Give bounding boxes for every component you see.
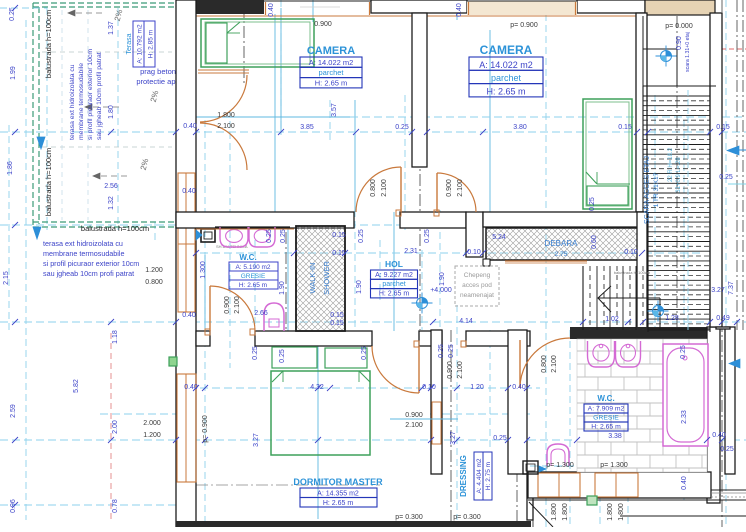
- svg-text:H: 2.75 m: H: 2.75 m: [485, 462, 492, 490]
- svg-text:1.28: 1.28: [665, 315, 679, 322]
- svg-text:1.20: 1.20: [470, 384, 484, 391]
- svg-text:2.31: 2.31: [404, 248, 418, 255]
- svg-text:0.25: 0.25: [448, 344, 455, 358]
- svg-text:si profil picuraor exterior 10: si profil picuraor exterior 10cm: [87, 49, 94, 140]
- svg-text:5.24: 5.24: [492, 234, 506, 241]
- svg-text:1.90: 1.90: [439, 272, 446, 286]
- svg-text:A: 9.227 m2: A: 9.227 m2: [375, 272, 413, 279]
- svg-text:0.25: 0.25: [358, 229, 365, 243]
- svg-text:1.90: 1.90: [356, 280, 363, 294]
- svg-text:H: 2.65 m: H: 2.65 m: [239, 282, 267, 289]
- svg-text:2.100: 2.100: [457, 361, 464, 379]
- svg-text:neamenajat: neamenajat: [460, 292, 494, 299]
- svg-text:0.40: 0.40: [681, 476, 688, 490]
- svg-text:2.100: 2.100: [405, 422, 423, 429]
- svg-text:0.25: 0.25: [9, 7, 16, 21]
- svg-text:1 TR 31X17: 1 TR 31X17: [653, 172, 660, 207]
- svg-text:balustrada h=100cm: balustrada h=100cm: [44, 148, 53, 216]
- svg-text:A: 7.909 m2: A: 7.909 m2: [588, 406, 625, 413]
- svg-text:0.900: 0.900: [314, 21, 332, 28]
- svg-text:1.300: 1.300: [200, 261, 207, 279]
- svg-text:sau jgheab 10cm profil patrat: sau jgheab 10cm profil patrat: [96, 52, 103, 140]
- svg-text:3.38: 3.38: [608, 433, 622, 440]
- svg-text:membrane termosudabile: membrane termosudabile: [78, 63, 85, 140]
- svg-text:1.32: 1.32: [108, 196, 115, 210]
- svg-text:GRESIE: GRESIE: [241, 273, 266, 280]
- svg-text:4.32: 4.32: [310, 384, 324, 391]
- svg-text:0.15: 0.15: [618, 124, 632, 131]
- svg-text:p= 0.900: p= 0.900: [202, 415, 209, 443]
- svg-text:0.60: 0.60: [591, 235, 598, 249]
- svg-text:acces pod: acces pod: [462, 282, 492, 289]
- svg-text:0.15: 0.15: [330, 320, 344, 327]
- svg-text:2.00: 2.00: [112, 420, 119, 434]
- svg-text:0.40: 0.40: [512, 384, 526, 391]
- svg-text:0.40: 0.40: [183, 123, 197, 130]
- svg-text:0.800: 0.800: [145, 279, 163, 286]
- svg-text:0.900: 0.900: [446, 179, 453, 197]
- svg-text:2.56: 2.56: [104, 183, 118, 190]
- svg-text:2.100: 2.100: [457, 179, 464, 197]
- svg-text:p= 1.300: p= 1.300: [600, 462, 628, 469]
- svg-text:0.25: 0.25: [361, 346, 368, 360]
- svg-text:0.40: 0.40: [184, 384, 198, 391]
- svg-text:7.37: 7.37: [728, 281, 735, 295]
- svg-text:1.90: 1.90: [279, 281, 286, 295]
- svg-text:0.800: 0.800: [541, 355, 548, 373]
- svg-text:2.000: 2.000: [143, 420, 161, 427]
- svg-text:0.900: 0.900: [405, 412, 423, 419]
- svg-text:DORMITOR MASTER: DORMITOR MASTER: [293, 477, 383, 487]
- svg-text:2.59: 2.59: [10, 404, 17, 418]
- svg-text:WALK-IN: WALK-IN: [308, 263, 317, 294]
- svg-text:0.15: 0.15: [716, 124, 730, 131]
- svg-text:p= 0.300: p= 0.300: [395, 514, 423, 521]
- svg-text:p= 0.000: p= 0.000: [665, 23, 693, 30]
- svg-text:0.78: 0.78: [112, 499, 119, 513]
- svg-text:2.100: 2.100: [234, 296, 241, 314]
- svg-text:0.15: 0.15: [332, 250, 346, 257]
- svg-text:2.100: 2.100: [551, 355, 558, 373]
- svg-text:0.25: 0.25: [680, 345, 687, 359]
- svg-text:0.25: 0.25: [720, 446, 734, 453]
- svg-text:1.200: 1.200: [145, 267, 163, 274]
- svg-text:0.25: 0.25: [493, 435, 507, 442]
- svg-text:2.75: 2.75: [555, 251, 568, 258]
- svg-text:protectie ape: protectie ape: [136, 77, 179, 86]
- svg-text:2.15: 2.15: [3, 271, 10, 285]
- svg-text:A: 14.355 m2: A: 14.355 m2: [317, 491, 359, 498]
- svg-text:scara 1.31+0 etaj: scara 1.31+0 etaj: [685, 32, 691, 72]
- svg-text:A: 14.022 m2: A: 14.022 m2: [479, 60, 533, 70]
- svg-text:A: 14.022 m2: A: 14.022 m2: [309, 58, 354, 67]
- svg-text:balustrada h=100cm: balustrada h=100cm: [614, 270, 651, 275]
- svg-text:DRESSING: DRESSING: [459, 455, 468, 497]
- svg-text:H: 2.85 m: H: 2.85 m: [148, 29, 155, 58]
- svg-text:prag beton: prag beton: [140, 67, 176, 76]
- svg-text:parchet: parchet: [491, 73, 522, 83]
- svg-text:1.800: 1.800: [551, 503, 558, 521]
- svg-text:0.800: 0.800: [370, 179, 377, 197]
- svg-text:H: 2.65 m: H: 2.65 m: [379, 290, 410, 297]
- svg-text:0.900: 0.900: [224, 296, 231, 314]
- svg-text:1.800: 1.800: [607, 503, 614, 521]
- svg-text:HOL: HOL: [385, 259, 403, 269]
- svg-text:0.25: 0.25: [266, 229, 273, 243]
- svg-text:1.18: 1.18: [112, 330, 119, 344]
- svg-text:W.C.: W.C.: [239, 253, 256, 262]
- svg-text:terasa ext hidroizolata cu: terasa ext hidroizolata cu: [69, 64, 76, 140]
- svg-text:22 R H=18.2: 22 R H=18.2: [668, 147, 674, 182]
- svg-text:CAMERA: CAMERA: [307, 45, 355, 57]
- svg-text:3.27: 3.27: [253, 433, 260, 447]
- svg-text:0.40: 0.40: [456, 3, 463, 17]
- svg-text:2.33: 2.33: [681, 410, 688, 424]
- svg-text:0.10: 0.10: [467, 249, 481, 256]
- svg-text:0.25: 0.25: [252, 346, 259, 360]
- svg-text:0.25: 0.25: [424, 229, 431, 243]
- svg-text:membrane termosudabile: membrane termosudabile: [43, 249, 125, 258]
- svg-text:p= 0.900: p= 0.900: [510, 22, 538, 29]
- svg-text:3.57: 3.57: [331, 103, 338, 117]
- svg-text:1.800: 1.800: [217, 112, 235, 119]
- svg-text:2.100: 2.100: [217, 123, 235, 130]
- svg-text:5.82: 5.82: [73, 379, 80, 393]
- svg-text:1.80: 1.80: [108, 105, 115, 119]
- svg-text:3.27: 3.27: [711, 287, 725, 294]
- svg-text:0.25: 0.25: [280, 229, 287, 243]
- svg-text:W.C.: W.C.: [597, 394, 614, 403]
- svg-text:parchet: parchet: [382, 281, 405, 288]
- svg-text:H: 2.65 m: H: 2.65 m: [315, 78, 348, 87]
- svg-text:1.800: 1.800: [618, 503, 625, 521]
- svg-text:2.66: 2.66: [254, 310, 268, 317]
- svg-text:0.40: 0.40: [268, 3, 275, 17]
- svg-text:SCARA ACCES ETAJ: SCARA ACCES ETAJ: [644, 156, 651, 224]
- svg-text:Chepeng: Chepeng: [464, 272, 491, 279]
- svg-text:DEBARA: DEBARA: [545, 239, 579, 248]
- svg-text:2.100: 2.100: [381, 179, 388, 197]
- svg-text:p= 0.300: p= 0.300: [453, 514, 481, 521]
- svg-text:H: 2.65 m: H: 2.65 m: [323, 500, 354, 507]
- svg-text:sau jgheab 10cm profi patrat: sau jgheab 10cm profi patrat: [43, 269, 134, 278]
- svg-text:3.27: 3.27: [450, 431, 457, 445]
- svg-text:CAMERA: CAMERA: [480, 43, 533, 57]
- svg-text:GRESIE: GRESIE: [593, 415, 619, 422]
- svg-text:balustrada h=100cm: balustrada h=100cm: [44, 10, 53, 78]
- svg-text:0.40: 0.40: [182, 312, 196, 319]
- svg-text:1.37: 1.37: [108, 21, 115, 35]
- svg-text:SHOWER: SHOWER: [322, 261, 331, 295]
- svg-text:si profil picuraor exterior 10: si profil picuraor exterior 10cm: [43, 259, 139, 268]
- svg-text:+4.000: +4.000: [430, 287, 452, 294]
- svg-text:H: 2.65 m: H: 2.65 m: [591, 424, 621, 431]
- svg-text:1.02: 1.02: [605, 316, 619, 323]
- svg-text:1.86: 1.86: [7, 161, 14, 175]
- svg-text:1.200: 1.200: [143, 432, 161, 439]
- svg-text:31+0.9 L=.28: 31+0.9 L=.28: [676, 157, 682, 193]
- svg-text:0.25: 0.25: [395, 124, 409, 131]
- svg-text:terasa ext hidroizolata cu: terasa ext hidroizolata cu: [43, 239, 123, 248]
- svg-text:0.25: 0.25: [589, 197, 596, 211]
- svg-text:0.15: 0.15: [330, 312, 344, 319]
- svg-text:0.25: 0.25: [279, 349, 286, 363]
- svg-text:0.10: 0.10: [624, 249, 638, 256]
- svg-text:0.90: 0.90: [676, 36, 683, 50]
- svg-text:0.40: 0.40: [182, 188, 196, 195]
- svg-text:3.80: 3.80: [513, 124, 527, 131]
- svg-text:A: 10.792 m2: A: 10.792 m2: [137, 24, 144, 64]
- svg-text:p= 1.300: p= 1.300: [546, 462, 574, 469]
- svg-text:0.25: 0.25: [719, 174, 733, 181]
- svg-text:0.900: 0.900: [447, 361, 454, 379]
- svg-text:parchet: parchet: [318, 68, 344, 77]
- svg-text:4.14: 4.14: [459, 318, 473, 325]
- svg-text:0.25: 0.25: [438, 344, 445, 358]
- svg-text:A: 4.404 m2: A: 4.404 m2: [476, 458, 483, 493]
- svg-text:Terasa: Terasa: [126, 33, 133, 54]
- svg-text:3.85: 3.85: [300, 124, 314, 131]
- svg-text:H: 2.65 m: H: 2.65 m: [486, 86, 525, 96]
- svg-text:1.800: 1.800: [562, 503, 569, 521]
- svg-text:balustrada h=100cm: balustrada h=100cm: [81, 224, 149, 233]
- svg-text:0.15: 0.15: [332, 232, 346, 239]
- svg-text:1.99: 1.99: [10, 66, 17, 80]
- svg-text:A: 5.190 m2: A: 5.190 m2: [235, 264, 270, 271]
